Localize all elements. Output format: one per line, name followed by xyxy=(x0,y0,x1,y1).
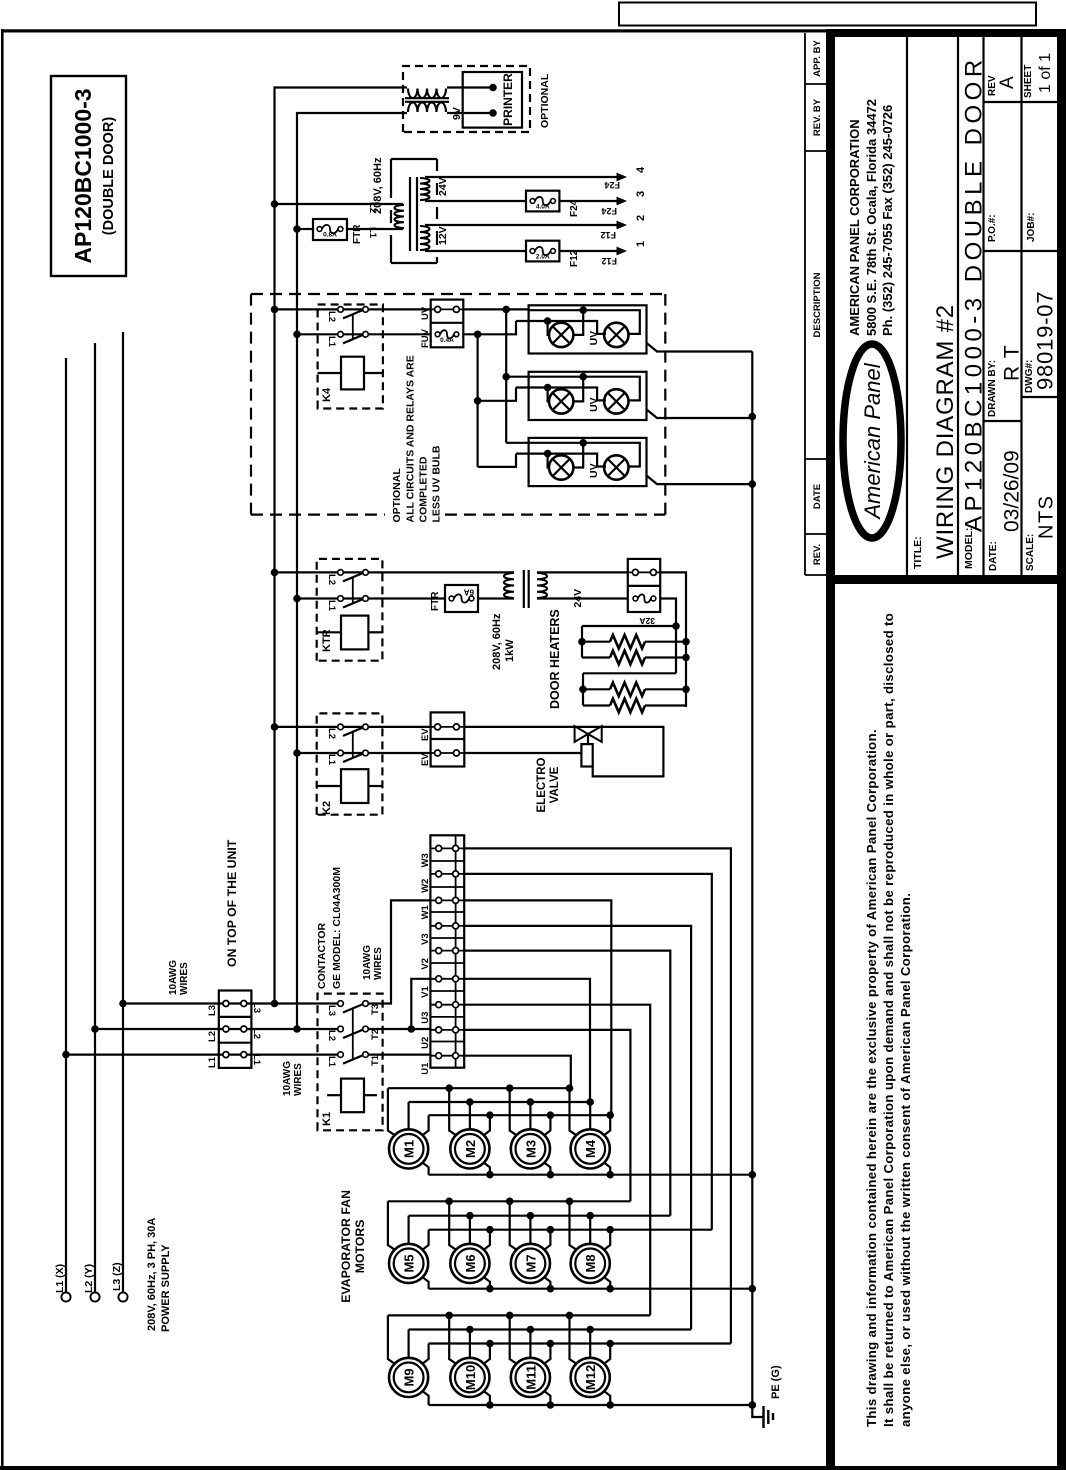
junction A-rail on UV drop xyxy=(502,306,510,314)
wire M5 lead C xyxy=(422,1230,429,1251)
svg-text:PRINTER: PRINTER xyxy=(501,73,515,126)
arrow 2 xyxy=(617,221,628,230)
wire UV feed to box1 rail A xyxy=(463,308,528,310)
lamp box 2 rail A tap xyxy=(573,377,583,402)
wire output 1 lower xyxy=(559,250,620,252)
wire M3 lead B xyxy=(529,1102,531,1129)
svg-text:OPTIONAL: OPTIONAL xyxy=(391,468,403,523)
junction heater r3 top xyxy=(579,686,587,694)
lamp box 1 pigtail xyxy=(647,343,753,352)
title block internal lines xyxy=(906,37,908,575)
wire M8 lead C xyxy=(603,1230,610,1251)
svg-text:UV: UV xyxy=(420,306,431,320)
transformer 1kW primary winding xyxy=(504,573,514,598)
svg-text:L3: L3 xyxy=(251,1002,262,1013)
electro valve bowtie xyxy=(575,726,602,742)
wire M2 lead A xyxy=(449,1088,457,1136)
contact K4 L1 xyxy=(338,332,344,338)
relay K2 dashed enclosure xyxy=(317,713,383,814)
svg-text:W3: W3 xyxy=(420,853,431,867)
junction M6 taps xyxy=(445,1198,453,1206)
wire M7 lead C xyxy=(544,1230,551,1251)
wire M10 lead B xyxy=(469,1330,471,1358)
contact K2 L2 xyxy=(338,724,344,730)
transformer primary winding xyxy=(395,205,404,228)
junction KTR L2 on bus xyxy=(271,569,279,577)
wire output 3 lower xyxy=(559,200,620,202)
fuse F12 xyxy=(526,241,559,262)
svg-text:03/26/09: 03/26/09 xyxy=(1001,450,1024,532)
junction B-rail box2 xyxy=(474,397,482,405)
junction heater r2 bottom xyxy=(682,654,690,662)
svg-text:24V: 24V xyxy=(437,177,449,196)
svg-text:EV: EV xyxy=(420,753,431,766)
wire M11 lead PE xyxy=(544,1391,551,1405)
door heater resistor 1 xyxy=(582,641,610,643)
transformer core xyxy=(409,177,411,251)
svg-text:M1: M1 xyxy=(402,1140,417,1158)
motor M6 xyxy=(450,1244,489,1283)
junction heater r1 top xyxy=(578,638,586,646)
UV lamp 2b xyxy=(604,389,628,413)
wire U3 feed run xyxy=(464,1005,650,1316)
svg-text:WIRES: WIRES xyxy=(179,962,190,995)
svg-text:FUV: FUV xyxy=(420,328,431,348)
wire M9 lead PE xyxy=(422,1391,429,1405)
terminal W2 xyxy=(430,873,464,875)
fuse F24 xyxy=(526,191,559,212)
svg-text:T3: T3 xyxy=(370,1004,381,1015)
wire output 1 xyxy=(425,250,526,252)
contactor K1 dashed enclosure xyxy=(318,994,383,1131)
svg-text:L2: L2 xyxy=(251,1028,262,1039)
svg-text:It shall be returned to Americ: It shall be returned to American Panel C… xyxy=(881,613,896,1427)
wire M5 lead B xyxy=(408,1216,410,1244)
svg-text:L2: L2 xyxy=(326,728,337,739)
svg-text:2.0A: 2.0A xyxy=(536,254,550,261)
svg-text:10AWG: 10AWG xyxy=(168,960,179,995)
heater pair 1 bracket xyxy=(581,626,583,658)
svg-text:2: 2 xyxy=(635,215,647,221)
wire M3 lead A xyxy=(510,1088,518,1136)
arrow 1 xyxy=(617,247,628,256)
svg-text:K4: K4 xyxy=(321,387,333,402)
contact K1 mechanical link xyxy=(352,1008,354,1059)
junction T2 branch xyxy=(408,1025,416,1033)
wire M6 lead PE xyxy=(483,1277,490,1289)
relay coil KTR xyxy=(317,631,341,633)
junction lamp pigtail 3 on PE xyxy=(749,480,757,488)
junction printer left xyxy=(489,109,497,117)
svg-text:L2: L2 xyxy=(326,311,337,322)
svg-text:MODEL:: MODEL: xyxy=(963,528,975,569)
svg-text:AP120BC1000-3 DOUBLE DOOR: AP120BC1000-3 DOUBLE DOOR xyxy=(961,55,988,532)
wire M1 lead C xyxy=(422,1115,429,1136)
wire A-rail to box2 rail A xyxy=(506,376,528,378)
relay coil K2 xyxy=(317,785,341,787)
svg-text:EV: EV xyxy=(420,728,431,741)
junction PE bus column M1 xyxy=(749,1171,757,1179)
svg-text:U2: U2 xyxy=(420,1037,431,1049)
UV lamp 1b xyxy=(604,323,628,347)
terminal U1 xyxy=(430,1055,464,1057)
contact KTR L1 xyxy=(338,596,344,602)
wire M6 lead C xyxy=(483,1230,490,1251)
svg-text:5800 S.E. 78th St. Ocala, Flor: 5800 S.E. 78th St. Ocala, Florida 34472 xyxy=(864,99,879,336)
svg-text:W2: W2 xyxy=(420,879,431,893)
svg-text:M4: M4 xyxy=(583,1139,598,1158)
svg-text:WIRES: WIRES xyxy=(373,947,384,980)
motor bus C column M5 xyxy=(429,1229,712,1231)
wire K2 L1 drop xyxy=(297,752,431,754)
wire L2 feeder xyxy=(95,1028,338,1030)
svg-text:M9: M9 xyxy=(402,1368,417,1386)
fuse FTR 0.8A xyxy=(313,219,347,240)
junction printer right xyxy=(489,84,497,92)
wire K2 L2 drop xyxy=(275,726,431,728)
svg-text:ELECTRO: ELECTRO xyxy=(536,757,548,812)
lamp box 1 rail B xyxy=(516,321,606,334)
junction M11 taps xyxy=(506,1312,514,1320)
arrow 3 xyxy=(617,197,628,206)
PE bus column M9 xyxy=(429,1404,753,1406)
wire W1 feed run xyxy=(464,900,611,1115)
lamp box 3 rail B xyxy=(516,454,606,467)
wire M9 lead A xyxy=(388,1315,396,1364)
junction bus L2 left end xyxy=(271,1000,279,1008)
junction L1 supply xyxy=(62,1051,70,1059)
electro valve coil body xyxy=(581,744,592,766)
terminal V3 xyxy=(430,925,464,927)
svg-text:L3: L3 xyxy=(326,1005,337,1016)
wire 24V left xyxy=(537,597,628,599)
PE bus column M5 xyxy=(429,1288,753,1290)
motor M2 xyxy=(450,1129,489,1168)
ground symbol xyxy=(752,1405,762,1417)
svg-text:L1: L1 xyxy=(326,1056,337,1068)
printer box xyxy=(463,72,522,128)
bus L1 control xyxy=(297,113,407,1029)
wire output 4 xyxy=(425,176,620,178)
revision table header row xyxy=(804,33,806,575)
svg-text:L1: L1 xyxy=(326,336,337,348)
wire M12 lead A xyxy=(570,1315,578,1364)
wire U1 feed run xyxy=(464,1056,571,1089)
terminal strip U1-W3 box xyxy=(430,835,464,1067)
wire V3 feed run xyxy=(464,926,691,1330)
svg-text:W1: W1 xyxy=(420,904,431,919)
door heater rail feed left xyxy=(660,599,676,674)
motor M5 xyxy=(389,1244,428,1283)
svg-text:anyone else, or used without t: anyone else, or used without the written… xyxy=(898,893,913,1427)
wire M7 lead A xyxy=(510,1201,518,1250)
svg-text:1: 1 xyxy=(635,241,647,247)
junction PE bus column M5 xyxy=(749,1285,757,1293)
wire L3 feeder xyxy=(123,1002,338,1004)
junction K4 L1 on bus xyxy=(293,331,301,339)
lamp box 2 pigtail xyxy=(647,409,753,418)
svg-text:This drawing and information c: This drawing and information contained h… xyxy=(864,729,879,1427)
transformer 1kW secondary winding xyxy=(537,573,547,598)
white tab outside right frame xyxy=(619,3,1036,26)
svg-text:4.0A: 4.0A xyxy=(536,204,550,211)
svg-text:REV. BY: REV. BY xyxy=(812,98,823,136)
svg-text:L2 (Y): L2 (Y) xyxy=(83,1264,95,1293)
relay KTR dashed enclosure xyxy=(317,559,383,661)
wire M12 lead PE xyxy=(603,1391,610,1405)
terminal U3 xyxy=(430,1004,464,1006)
wire M1 lead B xyxy=(408,1102,410,1129)
svg-text:L1: L1 xyxy=(207,1056,218,1068)
svg-text:208V, 60Hz: 208V, 60Hz xyxy=(491,613,503,670)
wire M5 lead PE xyxy=(422,1277,429,1289)
junction B-rail on FUV drop xyxy=(474,331,482,339)
svg-text:COMPLETED: COMPLETED xyxy=(418,456,430,522)
lamp box 1 rail A xyxy=(529,310,640,334)
svg-text:(DOUBLE DOOR): (DOUBLE DOOR) xyxy=(101,117,117,236)
svg-text:V3: V3 xyxy=(420,933,431,945)
junction M8 taps xyxy=(566,1198,574,1206)
wire T2 to U2 and V1 xyxy=(368,1028,430,1030)
lamp box 3 rail A xyxy=(529,443,640,467)
contact K2 L1 xyxy=(338,750,344,756)
wire M12 lead B xyxy=(589,1330,591,1358)
supply terminal L3 xyxy=(118,1292,127,1301)
svg-text:K2: K2 xyxy=(321,801,333,815)
motor M4 xyxy=(571,1129,610,1168)
svg-text:PE (G): PE (G) xyxy=(770,1365,782,1399)
wire M11 lead B xyxy=(529,1330,531,1358)
svg-text:ALL CIRCUITS AND RELAYS ARE: ALL CIRCUITS AND RELAYS ARE xyxy=(405,355,417,522)
fuse FTR 6A xyxy=(445,585,478,612)
svg-text:M8: M8 xyxy=(583,1254,598,1272)
contact K2 link xyxy=(352,732,354,758)
motor bus A column M5-M8 xyxy=(388,1200,631,1202)
wire M6 lead B xyxy=(469,1216,471,1244)
heater pair 2 feed xyxy=(583,672,676,674)
junction M2 taps xyxy=(445,1084,453,1092)
terminal U2 xyxy=(430,1029,464,1031)
svg-text:F12: F12 xyxy=(601,256,617,266)
motor M7 xyxy=(511,1244,550,1283)
title block divider thick bar xyxy=(835,575,1057,584)
wire M6 lead A xyxy=(449,1201,457,1250)
svg-text:F24: F24 xyxy=(601,206,617,216)
svg-text:208V, 60Hz, 3 PH, 30A: 208V, 60Hz, 3 PH, 30A xyxy=(146,1218,158,1331)
junction M7 taps xyxy=(506,1198,514,1206)
door heater resistor 2 xyxy=(582,656,610,658)
terminal W3 xyxy=(430,847,464,849)
svg-text:DATE: DATE xyxy=(812,484,823,509)
junction K4 L2 on bus xyxy=(271,306,279,314)
motor bus A column M9-M12 xyxy=(388,1314,650,1316)
svg-text:L2: L2 xyxy=(207,1031,218,1042)
svg-text:POWER SUPPLY: POWER SUPPLY xyxy=(160,1244,172,1332)
wire transformer L2 drop xyxy=(275,203,404,205)
svg-text:T2: T2 xyxy=(370,1029,381,1040)
UV lamp box 2 xyxy=(529,372,647,420)
svg-text:APP. BY: APP. BY xyxy=(812,39,823,76)
PE bus column M1 xyxy=(429,1174,753,1176)
title strip top thick bar xyxy=(826,29,835,1466)
junction heater r3 bottom xyxy=(682,686,690,694)
svg-text:V2: V2 xyxy=(420,958,431,970)
svg-text:1kW: 1kW xyxy=(504,639,516,662)
terminal box EV xyxy=(431,712,465,766)
svg-text:0.8A: 0.8A xyxy=(323,232,337,239)
wire M8 lead PE xyxy=(603,1277,610,1289)
wire M11 lead A xyxy=(510,1315,518,1364)
svg-text:L1: L1 xyxy=(326,600,337,612)
svg-text:M2: M2 xyxy=(463,1140,478,1158)
junction KTR L1 on bus xyxy=(293,595,301,603)
lamp box 2 rail A xyxy=(529,377,640,401)
supply terminal L1 xyxy=(61,1292,70,1301)
UV lamp 3b xyxy=(604,455,628,479)
svg-text:6A: 6A xyxy=(464,588,474,597)
svg-text:1 of 1: 1 of 1 xyxy=(1037,53,1054,93)
lamp box 3 rail B tap xyxy=(548,454,549,468)
svg-text:L1 (X): L1 (X) xyxy=(54,1264,66,1293)
junction heater r1 bottom xyxy=(682,638,690,646)
wire M1 lead PE xyxy=(422,1162,429,1175)
junction K2 L2 on bus xyxy=(271,723,279,731)
wire T3 to W1 xyxy=(368,900,430,1003)
wire FTR to primary xyxy=(347,228,403,230)
svg-text:DOOR HEATERS: DOOR HEATERS xyxy=(548,609,562,709)
transformer 1kW core xyxy=(523,570,525,608)
door heater rail feed right xyxy=(660,572,686,707)
junction bus L1 left end xyxy=(293,1025,301,1033)
svg-text:KTR: KTR xyxy=(321,629,333,652)
svg-text:VALVE: VALVE xyxy=(549,766,561,803)
junction M12 taps xyxy=(566,1312,574,1320)
junction M3 taps xyxy=(506,1084,514,1092)
svg-text:DRAWN BY:: DRAWN BY: xyxy=(987,360,998,417)
contact K1 L1/T1 xyxy=(338,1052,344,1058)
svg-text:L3: L3 xyxy=(207,1005,218,1016)
wire K4 L2 drop xyxy=(275,308,431,310)
wire EV to valve left xyxy=(464,752,581,754)
svg-text:M12: M12 xyxy=(583,1365,598,1390)
supply terminal L2 xyxy=(90,1292,99,1301)
contact K4 L2 xyxy=(338,307,344,313)
wire M11 lead C xyxy=(544,1344,551,1365)
wire M10 lead PE xyxy=(483,1391,490,1405)
junction transformer L2 on bus xyxy=(271,200,279,208)
wire M2 lead C xyxy=(483,1115,490,1136)
contact K1 L2/T2 xyxy=(338,1026,344,1032)
model label box AP120BC1000-3 xyxy=(51,76,126,276)
lamp box 3 pigtail xyxy=(647,476,753,485)
sheet frame border xyxy=(1,29,4,1470)
svg-text:GE MODEL: CL04A300M: GE MODEL: CL04A300M xyxy=(331,867,343,989)
terminal V2 xyxy=(430,950,464,952)
UV lamp 1a xyxy=(549,323,573,347)
wire M9 lead C xyxy=(422,1344,429,1365)
terminal block L1 L2 L3 xyxy=(219,991,252,1068)
lamp box 1 rail B tap xyxy=(548,321,549,335)
terminal W1 xyxy=(430,899,464,901)
svg-text:3: 3 xyxy=(635,191,647,197)
svg-text:P.O.#:: P.O.#: xyxy=(987,214,998,242)
wire M7 lead PE xyxy=(544,1277,551,1289)
wire transformer L1 drop xyxy=(297,228,313,230)
wire B-rail to box3 rail B xyxy=(478,454,516,467)
motor bus B column M1 xyxy=(409,1101,590,1103)
UV lamp 2a xyxy=(549,389,573,413)
contact KTR L2 xyxy=(338,570,344,576)
wire M8 lead B xyxy=(589,1216,591,1244)
svg-text:32A: 32A xyxy=(639,616,655,626)
svg-text:208V, 60Hz: 208V, 60Hz xyxy=(372,157,384,214)
motor M12 xyxy=(571,1358,610,1397)
svg-text:American Panel: American Panel xyxy=(860,362,885,520)
svg-text:FTR: FTR xyxy=(430,591,441,611)
A-phase distribution rail xyxy=(505,309,507,442)
junction L2 supply xyxy=(91,1025,99,1033)
svg-text:WIRING DIAGRAM #2: WIRING DIAGRAM #2 xyxy=(932,304,959,559)
svg-text:EVAPORATOR FAN: EVAPORATOR FAN xyxy=(339,1190,353,1303)
wire EV to valve right xyxy=(464,727,663,777)
wire W2 feed run xyxy=(464,874,712,1230)
svg-text:12V: 12V xyxy=(437,226,449,245)
wire KTR L1 drop xyxy=(297,597,445,599)
arrow 4 xyxy=(617,173,628,182)
wire M7 lead B xyxy=(529,1216,531,1244)
fuse box 32A xyxy=(628,559,660,612)
wire L1 feeder xyxy=(66,1053,338,1055)
motor M11 xyxy=(511,1358,550,1397)
svg-text:L1: L1 xyxy=(251,1054,262,1066)
junction M4 taps xyxy=(566,1084,574,1092)
junction lamp pigtail 2 on PE xyxy=(749,413,757,421)
UV lamp 3a xyxy=(549,455,573,479)
wire M10 lead A xyxy=(449,1315,457,1364)
svg-text:L2: L2 xyxy=(326,1030,337,1041)
junction heater rail S xyxy=(672,622,680,630)
svg-text:Ph. (352) 245-7055 Fax (352): Ph. (352) 245-7055 Fax (352) 245-0726 xyxy=(880,105,895,336)
svg-text:U1: U1 xyxy=(420,1062,431,1075)
wire A-rail to box3 rail A xyxy=(506,442,528,444)
svg-text:CONTACTOR: CONTACTOR xyxy=(316,922,328,989)
svg-text:4: 4 xyxy=(635,166,647,173)
wire FUV feed to box1 rail B xyxy=(463,321,516,334)
svg-text:10AWG: 10AWG xyxy=(282,1061,293,1096)
printer dashed box xyxy=(403,66,530,132)
svg-text:AMERICAN PANEL CORPORATION: AMERICAN PANEL CORPORATION xyxy=(847,119,862,336)
svg-text:M6: M6 xyxy=(463,1254,478,1272)
motor M10 xyxy=(450,1358,489,1397)
lamp box 3 rail A tap xyxy=(573,443,583,468)
wire FTR to transformer xyxy=(478,597,514,599)
svg-text:JOB#:: JOB#: xyxy=(1026,213,1037,242)
junction M10 taps xyxy=(445,1312,453,1320)
printer transformer windings xyxy=(408,103,446,113)
junction PE ground xyxy=(749,1401,757,1409)
wire M8 lead A xyxy=(570,1201,578,1250)
wire output 3 xyxy=(425,200,526,202)
wire M4 lead B xyxy=(589,1102,591,1129)
svg-text:TITLE:: TITLE: xyxy=(912,536,924,569)
svg-text:10AWG: 10AWG xyxy=(362,945,373,980)
svg-text:98019-07: 98019-07 xyxy=(1033,291,1058,390)
wire 24V right xyxy=(537,571,628,573)
motor bus B column M9 xyxy=(409,1328,691,1330)
svg-text:ON TOP OF THE UNIT: ON TOP OF THE UNIT xyxy=(225,839,239,967)
wire M1 lead A xyxy=(388,1088,396,1136)
wire U2 feed run xyxy=(464,1030,630,1201)
